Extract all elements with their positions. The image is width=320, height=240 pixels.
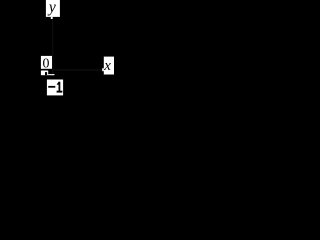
x-axis arrowhead nub xyxy=(102,68,104,71)
x-axis (near-black, as stored) xyxy=(53,69,103,70)
label 0 box upper xyxy=(41,56,52,69)
label x box xyxy=(104,57,114,75)
svg-text:y: y xyxy=(47,0,56,16)
label -1 box xyxy=(47,80,63,96)
digit 1 stem xyxy=(59,82,61,92)
tick strip at y=-1 xyxy=(48,74,54,75)
background xyxy=(0,0,114,107)
minus sign xyxy=(48,86,55,88)
svg-text:x: x xyxy=(103,58,111,74)
y-axis arrowhead nub xyxy=(51,17,53,19)
tick mark black xyxy=(45,72,47,75)
svg-text:0: 0 xyxy=(43,57,50,72)
digit 1 serif xyxy=(57,91,63,93)
y-axis (near-black, as stored) xyxy=(52,19,53,76)
digit 1 flag xyxy=(57,82,59,85)
label y box xyxy=(46,0,60,17)
label 0 box lower xyxy=(41,71,48,76)
